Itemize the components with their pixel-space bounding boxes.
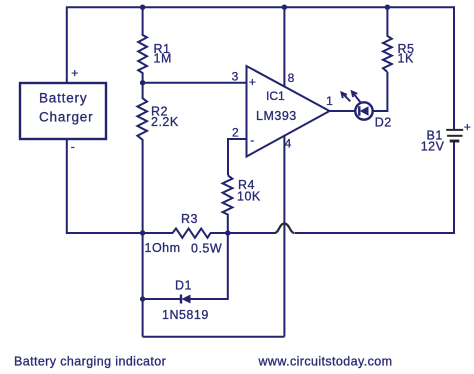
wire bottom rail [143,336,285,338]
wire pin 4 down to bottom rail [283,136,285,337]
wire battery bottom to ground rail [295,142,455,233]
diode D1 [181,295,191,304]
resistor R3 [173,229,211,238]
wire pin 8 to top rail [283,7,285,87]
node top rail x=284.4 [282,5,287,10]
svg-text:1N5819: 1N5819 [162,308,209,322]
wire charger bottom to ground rail [67,139,173,233]
wire pin 2 [228,139,247,175]
wire hop crossing over pin 4 wire [275,224,294,234]
svg-text:8: 8 [288,71,295,85]
svg-text:-: - [71,140,75,154]
svg-text:1K: 1K [398,52,414,66]
node top rail x=142.6 [140,5,145,10]
svg-text:1M: 1M [154,52,172,66]
LED D2 [342,91,373,119]
svg-text:+: + [71,66,78,80]
label Battery Charger [39,91,93,125]
node D1 left junction [140,296,145,301]
svg-text:LM393: LM393 [256,109,297,123]
wire D1 branch [143,298,180,300]
wire top rail [67,7,454,129]
svg-text:Charger: Charger [39,110,93,125]
wire node A to pin 3 [143,82,247,84]
svg-text:D2: D2 [375,116,392,130]
svg-text:0.5W: 0.5W [191,242,222,256]
svg-text:12V: 12V [421,139,445,153]
svg-text:2: 2 [232,126,239,140]
svg-text:+: + [464,120,471,134]
wire left lower vertical to bottom rail [142,233,144,337]
label R5 1K [398,42,415,66]
wire LED to R5 [373,72,388,111]
wire D1 to R4 node [191,233,228,299]
svg-text:-: - [250,133,254,147]
resistor R2 [137,83,147,233]
svg-text:+: + [249,75,256,89]
resistor R1 [138,7,147,83]
resistor R5 [383,7,392,72]
op-amp U1 IC1 LM393 [247,66,330,157]
svg-text:Battery charging indicator: Battery charging indicator [14,355,166,369]
svg-text:Battery: Battery [39,91,87,106]
svg-text:D1: D1 [175,279,192,293]
label R4 10K [237,178,261,204]
node top rail x=387.4 [385,5,390,10]
svg-text:1: 1 [326,94,333,108]
battery B1 [446,130,463,141]
svg-text:2.2K: 2.2K [151,115,179,129]
wire R3 right segment [210,232,275,234]
svg-text:4: 4 [285,137,292,151]
svg-text:1Ohm: 1Ohm [145,241,181,255]
svg-text:IC1: IC1 [266,89,285,103]
label R2 2.2K [151,105,179,130]
svg-text:10K: 10K [237,190,261,204]
svg-text:3: 3 [232,70,239,84]
node R3 left junction [140,230,145,235]
wire output pin 1 to LED [330,110,356,112]
node R3/R4 junction [225,230,230,235]
label R1 1M [154,42,172,66]
battery charger box [20,83,106,139]
svg-text:www.circuitstoday.com: www.circuitstoday.com [258,355,393,369]
svg-text:R3: R3 [181,212,198,226]
resistor R4 [223,175,233,233]
node A (R1/R2 junction) [140,80,145,85]
